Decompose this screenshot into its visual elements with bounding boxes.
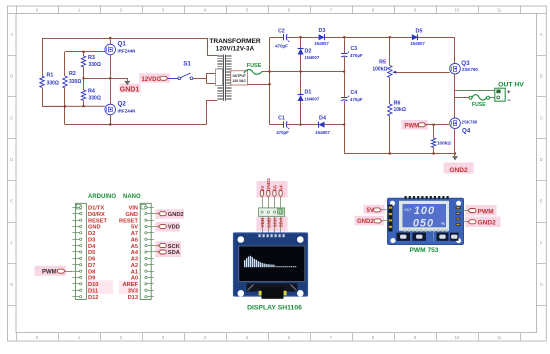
svg-text:470µF: 470µF — [275, 43, 288, 48]
svg-text:A2: A2 — [131, 263, 138, 269]
svg-text:D12: D12 — [88, 295, 98, 301]
svg-text:A1: A1 — [131, 269, 138, 275]
svg-text:RESET: RESET — [88, 218, 107, 224]
svg-text:F: F — [10, 240, 13, 245]
svg-text:100: 100 — [414, 205, 435, 217]
svg-text:11: 11 — [497, 335, 502, 340]
svg-text:D5: D5 — [88, 250, 95, 256]
svg-text:ARDUINO: ARDUINO — [88, 194, 116, 200]
svg-text:D8: D8 — [88, 269, 95, 275]
svg-text:D0/RX: D0/RX — [88, 212, 105, 218]
svg-text:A6: A6 — [131, 237, 138, 243]
svg-text:10: 10 — [455, 335, 460, 340]
svg-text:D3: D3 — [88, 237, 95, 243]
svg-text:A0: A0 — [131, 276, 138, 282]
svg-text:D4: D4 — [319, 116, 326, 122]
svg-text:NANO: NANO — [123, 194, 141, 200]
svg-text:Q1: Q1 — [118, 41, 127, 48]
svg-text:R5: R5 — [379, 60, 386, 66]
svg-text:R3: R3 — [88, 55, 95, 61]
svg-text:+: + — [288, 40, 290, 44]
svg-text:C3: C3 — [351, 46, 358, 52]
svg-text:IRFZ44N: IRFZ44N — [118, 49, 136, 54]
svg-text:G: G — [10, 282, 13, 287]
svg-text:GND2: GND2 — [168, 212, 184, 218]
svg-text:330Ω: 330Ω — [89, 96, 101, 102]
svg-text:SDA: SDA — [279, 217, 284, 228]
svg-text:G: G — [540, 282, 543, 287]
svg-text:A7: A7 — [131, 231, 138, 237]
svg-text:TRANSFORMER: TRANSFORMER — [209, 38, 261, 45]
svg-text:SCK: SCK — [168, 244, 181, 250]
svg-text:C: C — [540, 115, 543, 120]
svg-text:D9: D9 — [88, 276, 95, 282]
svg-text:VIN: VIN — [129, 206, 138, 212]
svg-text:3V3: 3V3 — [128, 289, 138, 295]
svg-text:050: 050 — [413, 218, 434, 230]
svg-text:A5: A5 — [272, 185, 277, 191]
svg-text:+: + — [507, 90, 511, 96]
svg-text:120V/12V-3A: 120V/12V-3A — [216, 46, 255, 53]
svg-text:D1/TX: D1/TX — [88, 206, 104, 212]
svg-text:E: E — [540, 199, 543, 204]
svg-text:A4: A4 — [279, 185, 284, 191]
svg-text:C4: C4 — [351, 90, 358, 96]
svg-text:12VDC: 12VDC — [142, 77, 162, 83]
svg-text:OUT: OUT — [404, 208, 412, 212]
svg-text:11: 11 — [497, 7, 502, 12]
svg-text:OUT HV: OUT HV — [498, 81, 524, 88]
svg-text:VDD: VDD — [168, 225, 180, 231]
svg-text:D3: D3 — [319, 28, 326, 34]
svg-text:A5: A5 — [131, 244, 138, 250]
svg-text:SCK: SCK — [272, 217, 277, 228]
svg-text:GND: GND — [88, 225, 101, 231]
svg-text:FUSE: FUSE — [472, 102, 486, 108]
svg-text:100kΩ: 100kΩ — [372, 66, 387, 72]
svg-text:Q4: Q4 — [462, 128, 471, 135]
svg-text:A4: A4 — [131, 250, 139, 256]
svg-text:AREF: AREF — [123, 282, 139, 288]
svg-text:PWM: PWM — [42, 270, 57, 276]
svg-text:B: B — [540, 74, 543, 79]
svg-text:PWM: PWM — [405, 123, 420, 129]
svg-text:GND: GND — [266, 217, 271, 228]
svg-text:R1: R1 — [47, 73, 54, 79]
svg-text:1N4007: 1N4007 — [315, 130, 330, 135]
svg-text:R6: R6 — [394, 100, 401, 106]
svg-text:1N4007: 1N4007 — [305, 55, 320, 60]
svg-text:2SK790: 2SK790 — [462, 120, 478, 125]
svg-text:Q2: Q2 — [118, 101, 127, 108]
svg-text:A: A — [10, 32, 13, 37]
svg-text:PWM: PWM — [478, 208, 495, 215]
svg-text:RESET: RESET — [119, 218, 138, 224]
svg-text:F: F — [540, 240, 543, 245]
svg-text:120 VAC: 120 VAC — [232, 79, 246, 83]
svg-text:5V: 5V — [131, 225, 138, 231]
svg-text:GND2: GND2 — [478, 220, 497, 227]
svg-text:D6: D6 — [88, 257, 95, 263]
svg-text:1N4007: 1N4007 — [314, 41, 329, 46]
svg-text:C1: C1 — [278, 115, 285, 121]
svg-text:2SK790: 2SK790 — [462, 67, 478, 72]
svg-text:5V: 5V — [367, 208, 374, 214]
svg-text:OUTPUT: OUTPUT — [232, 73, 246, 78]
svg-text:330Ω: 330Ω — [69, 79, 81, 85]
svg-text:470µF: 470µF — [350, 97, 363, 102]
svg-text:%: % — [441, 221, 445, 226]
svg-text:C2: C2 — [278, 28, 285, 34]
svg-text:330Ω: 330Ω — [89, 62, 101, 68]
svg-text:A3: A3 — [131, 257, 138, 263]
svg-text:SDA: SDA — [168, 250, 180, 256]
svg-text:10: 10 — [455, 7, 460, 12]
svg-text:C: C — [10, 115, 13, 120]
svg-text:B: B — [10, 74, 13, 79]
svg-text:PWM 753: PWM 753 — [410, 247, 439, 254]
svg-text:D: D — [540, 157, 543, 162]
svg-text:FUSE: FUSE — [247, 63, 262, 69]
svg-text:1N4007: 1N4007 — [410, 41, 425, 46]
svg-text:470µF: 470µF — [276, 130, 289, 135]
svg-text:Q3: Q3 — [461, 60, 470, 67]
svg-text:470µF: 470µF — [350, 53, 363, 58]
svg-text:GND1: GND1 — [120, 87, 140, 94]
svg-text:1N4007: 1N4007 — [305, 96, 320, 101]
svg-text:D2: D2 — [305, 48, 312, 54]
svg-text:330Ω: 330Ω — [47, 81, 59, 87]
svg-text:−: − — [507, 98, 511, 104]
svg-text:E: E — [10, 199, 13, 204]
svg-text:GND: GND — [125, 212, 138, 218]
svg-text:5V: 5V — [260, 185, 265, 192]
svg-text:DISPLAY SH1106: DISPLAY SH1106 — [247, 304, 302, 311]
svg-text:GND2: GND2 — [449, 167, 468, 174]
svg-text:D13: D13 — [128, 295, 138, 301]
svg-text:D10: D10 — [88, 282, 98, 288]
svg-text:GND2: GND2 — [357, 219, 374, 225]
svg-text:A: A — [540, 32, 543, 37]
svg-text:R4: R4 — [88, 89, 95, 95]
svg-text:10kΩ: 10kΩ — [394, 107, 406, 113]
svg-text:D5: D5 — [416, 28, 423, 34]
svg-text:GND2: GND2 — [266, 178, 271, 191]
svg-text:VDD: VDD — [260, 217, 265, 228]
svg-text:R2: R2 — [69, 71, 76, 77]
svg-text:IRFZ44N: IRFZ44N — [118, 109, 136, 114]
svg-text:D: D — [10, 157, 13, 162]
svg-text:S1: S1 — [183, 61, 191, 68]
svg-text:D4: D4 — [88, 244, 96, 250]
svg-text:100kΩ: 100kΩ — [437, 141, 451, 146]
svg-text:D11: D11 — [88, 289, 98, 295]
svg-text:D2: D2 — [88, 231, 95, 237]
svg-text:D1: D1 — [305, 90, 312, 96]
svg-text:D7: D7 — [88, 263, 95, 269]
